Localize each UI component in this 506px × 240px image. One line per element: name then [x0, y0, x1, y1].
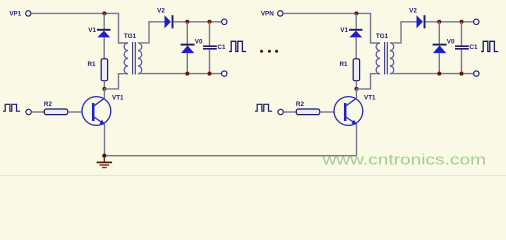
- svg-text:V1: V1: [88, 27, 96, 34]
- wire VT1 emitter down (left): [104, 124, 106, 156]
- node junction V0 top (left): [185, 20, 189, 24]
- wire bottom edge artifact: [0, 174, 506, 176]
- resistor R1 (left): [101, 59, 107, 89]
- wire VT1 emitter down (right): [356, 124, 358, 156]
- wire transformer secondary top to V2 (right): [390, 22, 417, 43]
- node junction C1 top (right): [460, 20, 464, 24]
- svg-text:V0: V0: [447, 38, 455, 45]
- wire VP1 to transformer primary top (left): [31, 13, 128, 43]
- wire transformer secondary bottom to output bottom terminal (right): [390, 73, 474, 75]
- transformer TG1 (right): [376, 42, 394, 74]
- node junction V1 anode / VP1 rail (left): [102, 11, 106, 15]
- svg-text:V0: V0: [195, 38, 203, 45]
- node ellipsis dots between stages: [260, 50, 278, 53]
- svg-text:VT1: VT1: [364, 95, 376, 102]
- pulse waveform symbol input (left): [3, 104, 20, 111]
- terminal VPN (right): [278, 11, 283, 16]
- terminal output bottom (left): [222, 71, 227, 76]
- svg-text:TG1: TG1: [376, 33, 389, 40]
- node junction V0 bottom (left): [185, 72, 189, 76]
- svg-text:VT1: VT1: [112, 95, 124, 102]
- diode V0 (right): [433, 22, 447, 74]
- wire R2 to VT1 base (right): [320, 111, 335, 113]
- diode V1 (right): [349, 13, 363, 58]
- node ground junction: [102, 154, 106, 158]
- svg-text:V1: V1: [340, 27, 348, 34]
- pulse waveform symbol input (right): [255, 104, 272, 111]
- wire junction to transformer primary bottom (left): [104, 74, 128, 89]
- terminal output bottom (right): [474, 71, 479, 76]
- terminal output top (left): [222, 19, 227, 24]
- node junction C1 top (left): [208, 20, 212, 24]
- wire ground bus: [104, 155, 356, 157]
- transistor VT1 (right): [334, 97, 363, 126]
- diode V2 (right): [417, 15, 425, 28]
- wire transformer secondary top to V2 (left): [138, 22, 165, 43]
- svg-text:C1: C1: [217, 44, 226, 51]
- ground: [97, 156, 113, 168]
- pulse waveform symbol output (left): [229, 41, 246, 51]
- svg-text:TG1: TG1: [124, 33, 137, 40]
- wire junction to VT1 collector (left): [103, 89, 105, 98]
- node junction V1 anode / VPN rail (right): [354, 11, 358, 15]
- capacitor C1 (right): [455, 22, 469, 74]
- diode V2 (left): [165, 15, 173, 28]
- svg-text:C1: C1: [469, 44, 478, 51]
- svg-text:V2: V2: [409, 8, 417, 15]
- node junction V0 top (right): [437, 20, 441, 24]
- wire junction to VT1 collector (right): [355, 89, 357, 98]
- node junction R1 / primary bottom / collector (left): [102, 87, 106, 91]
- diode V0 (left): [181, 22, 195, 74]
- svg-text:VP1: VP1: [9, 11, 21, 18]
- terminal output top (right): [474, 19, 479, 24]
- wire VPN to transformer primary top (right): [283, 13, 380, 43]
- svg-text:R1: R1: [339, 61, 348, 68]
- svg-text:R1: R1: [87, 61, 96, 68]
- wire V2 cathode to output top terminal (right): [425, 21, 473, 23]
- wire V2 cathode to output top terminal (left): [173, 21, 221, 23]
- svg-text:R2: R2: [296, 101, 305, 108]
- node junction C1 bottom (right): [460, 72, 464, 76]
- pulse waveform symbol output (right): [481, 41, 498, 51]
- resistor R2 (right): [296, 109, 319, 115]
- terminal input (left): [26, 109, 31, 114]
- node junction R1 / primary bottom / collector (right): [354, 87, 358, 91]
- svg-text:V2: V2: [157, 8, 165, 15]
- wire junction to transformer primary bottom (right): [356, 74, 380, 89]
- capacitor C1 (left): [203, 22, 217, 74]
- diode V1 (left): [97, 13, 111, 58]
- resistor R2 (left): [44, 109, 67, 115]
- resistor R1 (right): [353, 59, 359, 89]
- wire input terminal to R2 (right): [284, 111, 297, 113]
- node junction V0 bottom (right): [437, 72, 441, 76]
- terminal input (right): [278, 109, 283, 114]
- node junction C1 bottom (left): [208, 72, 212, 76]
- svg-text:R2: R2: [44, 101, 53, 108]
- transformer TG1 (left): [124, 42, 142, 74]
- svg-text:VPN: VPN: [261, 11, 274, 18]
- transistor VT1 (left): [82, 97, 111, 126]
- wire transformer secondary bottom to output bottom terminal (left): [138, 73, 222, 75]
- wire input terminal to R2 (left): [32, 111, 45, 113]
- wire R2 to VT1 base (left): [68, 111, 83, 113]
- terminal VP1 (left): [26, 11, 31, 16]
